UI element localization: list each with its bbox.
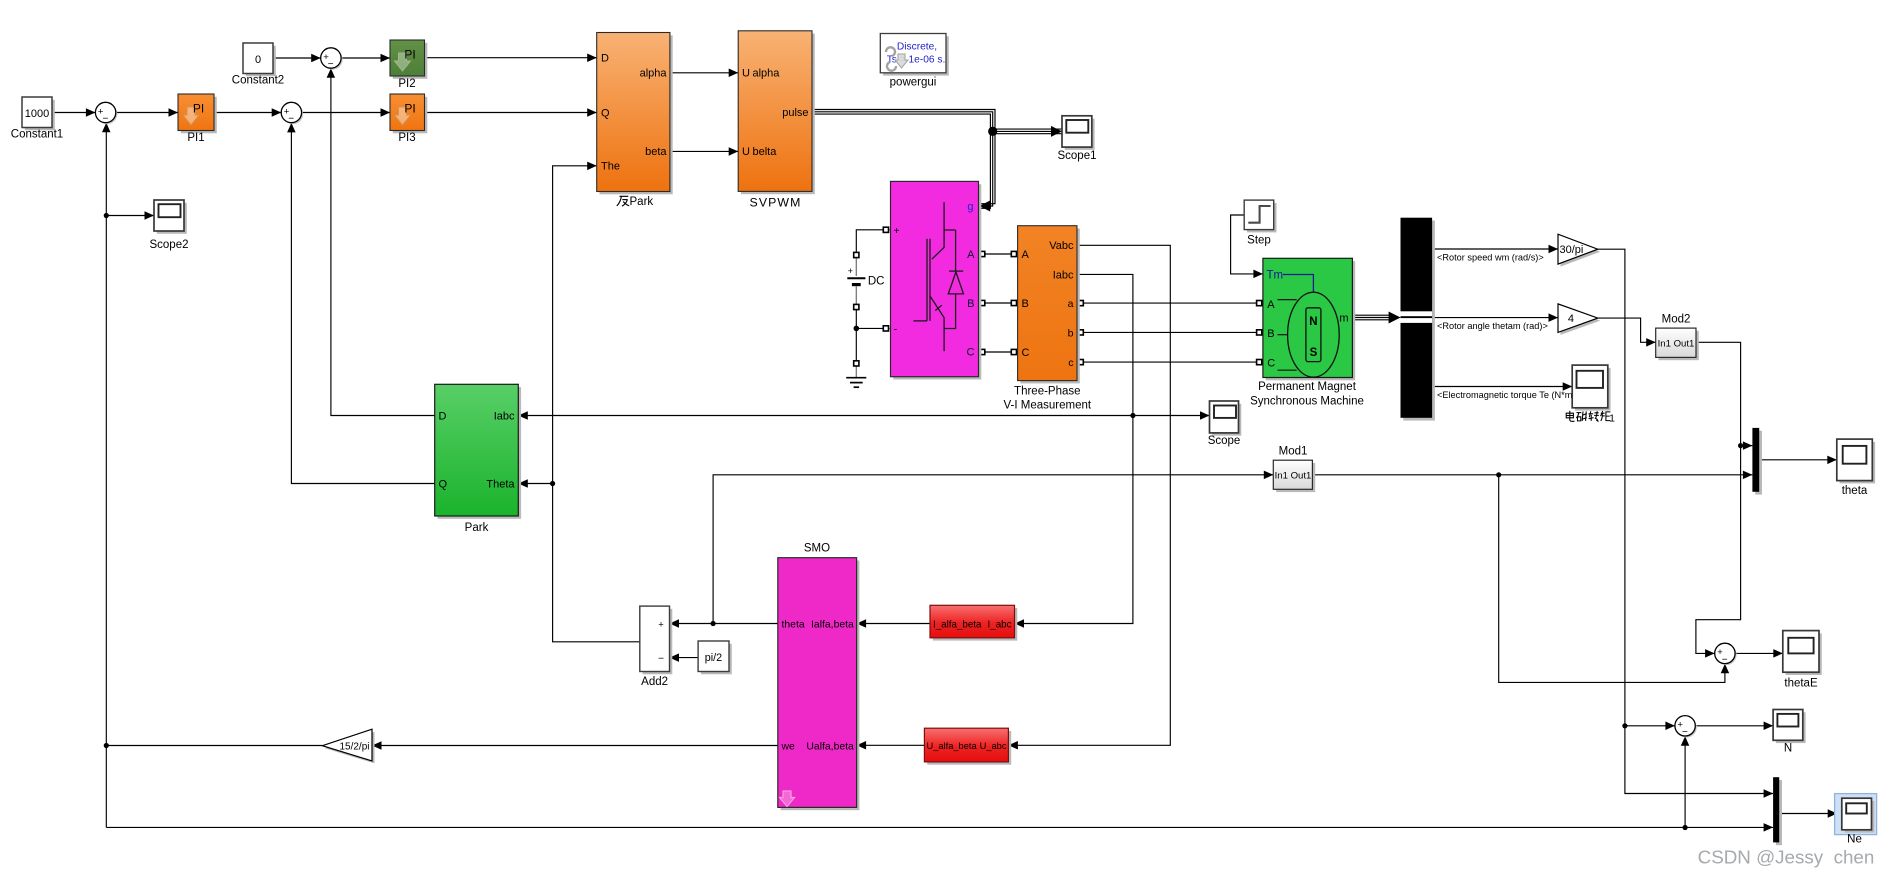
svg-text:alpha: alpha xyxy=(753,68,781,80)
svg-text:V-I Measurement: V-I Measurement xyxy=(1004,400,1092,412)
svg-text:a: a xyxy=(1068,298,1074,310)
svg-text:theta: theta xyxy=(782,620,805,631)
svg-text:Tm: Tm xyxy=(1267,270,1284,282)
svg-text:U_abc: U_abc xyxy=(980,741,1007,751)
svg-text:CSDN @Jessy chen: CSDN @Jessy chen xyxy=(1698,847,1875,868)
svg-text:B: B xyxy=(967,298,974,310)
svg-text:Step: Step xyxy=(1247,235,1271,247)
svg-text:Discrete,: Discrete, xyxy=(897,42,937,53)
svg-text:Q: Q xyxy=(439,479,448,491)
svg-text:PI: PI xyxy=(193,102,204,116)
svg-text:we: we xyxy=(781,741,796,752)
svg-text:DC: DC xyxy=(868,275,885,287)
svg-text:Vabc: Vabc xyxy=(1049,240,1074,252)
svg-text:beta: beta xyxy=(645,146,667,158)
svg-text:1: 1 xyxy=(1609,412,1615,424)
svg-text:Constant2: Constant2 xyxy=(232,75,284,87)
svg-text:+: + xyxy=(658,619,664,630)
svg-text:+: + xyxy=(894,226,900,237)
svg-text:Q: Q xyxy=(601,107,610,119)
svg-text:PI: PI xyxy=(404,102,415,116)
svg-text:Iabc: Iabc xyxy=(1053,269,1074,281)
svg-text:I_abc: I_abc xyxy=(988,619,1012,630)
svg-text:I_alfa_beta: I_alfa_beta xyxy=(933,619,982,630)
svg-text:Ialfa,beta: Ialfa,beta xyxy=(811,620,854,631)
svg-text:PI2: PI2 xyxy=(398,78,415,90)
svg-text:Scope: Scope xyxy=(1208,435,1241,447)
svg-text:Ne: Ne xyxy=(1847,834,1862,846)
svg-text:SMO: SMO xyxy=(804,543,830,555)
svg-text:<Electromagnetic torque Te (N*: <Electromagnetic torque Te (N*m)> xyxy=(1437,390,1581,400)
svg-text:Three-Phase: Three-Phase xyxy=(1014,386,1080,398)
svg-text:A: A xyxy=(1022,249,1030,261)
svg-text:−: − xyxy=(102,114,108,125)
svg-text:4: 4 xyxy=(1568,313,1574,325)
svg-text:C: C xyxy=(1267,358,1275,370)
svg-text:In1 Out1: In1 Out1 xyxy=(1275,471,1312,482)
svg-text:A: A xyxy=(967,249,975,261)
svg-text:U: U xyxy=(742,146,750,158)
svg-text:alpha: alpha xyxy=(640,68,668,80)
svg-text:<Rotor speed wm (rad/s)>: <Rotor speed wm (rad/s)> xyxy=(1437,253,1544,263)
svg-text:−: − xyxy=(328,59,334,70)
svg-text:<Rotor angle thetam (rad)>: <Rotor angle thetam (rad)> xyxy=(1437,321,1548,331)
svg-text:Iabc: Iabc xyxy=(494,411,515,423)
svg-text:U: U xyxy=(742,68,750,80)
svg-text:Mod1: Mod1 xyxy=(1279,446,1308,458)
svg-text:g: g xyxy=(967,201,973,213)
svg-text:C: C xyxy=(967,347,975,359)
svg-text:0: 0 xyxy=(255,54,261,66)
svg-text:D: D xyxy=(601,53,609,65)
svg-text:c: c xyxy=(1068,357,1073,369)
svg-text:−: − xyxy=(288,114,294,125)
svg-text:belta: belta xyxy=(753,146,778,158)
svg-text:N: N xyxy=(1309,316,1317,328)
svg-text:pi/2: pi/2 xyxy=(705,652,722,664)
svg-text:Park: Park xyxy=(465,522,489,534)
svg-text:b: b xyxy=(1068,327,1074,339)
svg-text:N: N xyxy=(1784,743,1792,755)
svg-text:−: − xyxy=(1682,727,1688,738)
svg-text:Theta: Theta xyxy=(486,479,515,491)
svg-text:15/2/pi: 15/2/pi xyxy=(339,742,369,753)
svg-text:pulse: pulse xyxy=(782,107,808,119)
svg-text:Constant1: Constant1 xyxy=(11,129,63,141)
svg-text:U_alfa_beta: U_alfa_beta xyxy=(927,741,978,751)
svg-text:−: − xyxy=(1722,655,1728,666)
svg-text:Add2: Add2 xyxy=(641,676,668,688)
svg-text:Scope1: Scope1 xyxy=(1057,150,1096,162)
svg-text:powergui: powergui xyxy=(890,77,937,89)
svg-text:Mod2: Mod2 xyxy=(1662,314,1691,326)
svg-text:+: + xyxy=(848,266,853,276)
svg-text:Synchronous Machine: Synchronous Machine xyxy=(1250,396,1364,408)
svg-text:A: A xyxy=(1267,299,1275,311)
svg-text:30/pi: 30/pi xyxy=(1560,244,1584,256)
svg-text:S: S xyxy=(1310,347,1318,359)
svg-text:PI3: PI3 xyxy=(398,132,415,144)
svg-text:Park: Park xyxy=(630,196,654,208)
svg-text:In1 Out1: In1 Out1 xyxy=(1658,338,1695,349)
svg-text:B: B xyxy=(1267,328,1274,340)
svg-text:−: − xyxy=(658,653,664,664)
svg-text:B: B xyxy=(1022,298,1029,310)
svg-text:Permanent Magnet: Permanent Magnet xyxy=(1258,381,1357,393)
svg-text:1000: 1000 xyxy=(25,108,49,120)
svg-text:Ualfa,beta: Ualfa,beta xyxy=(806,741,854,752)
svg-text:SVPWM: SVPWM xyxy=(750,196,802,210)
svg-text:-: - xyxy=(894,324,898,336)
svg-text:The: The xyxy=(601,161,620,173)
svg-text:thetaE: thetaE xyxy=(1784,678,1818,690)
svg-text:theta: theta xyxy=(1842,485,1868,497)
svg-text:PI1: PI1 xyxy=(187,132,204,144)
svg-text:D: D xyxy=(439,411,447,423)
svg-text:PI: PI xyxy=(404,48,415,62)
svg-text:C: C xyxy=(1022,347,1030,359)
svg-text:Scope2: Scope2 xyxy=(149,239,188,251)
svg-text:m: m xyxy=(1339,313,1348,325)
